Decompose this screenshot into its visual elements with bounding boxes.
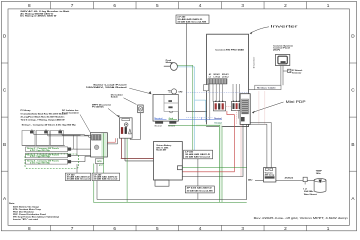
svg-text:2: 2 xyxy=(284,226,287,231)
svg-text:30 AB 645 Ground-MS: 30 AB 645 Ground-MS xyxy=(177,20,207,23)
svg-text:String 1 - Company 34 Values 4: String 1 - Company 34 Values 4 DC Vpp 80… xyxy=(22,123,77,126)
svg-text:Model 48V: Model 48V xyxy=(156,149,167,152)
svg-text:Note:: Note: xyxy=(9,202,15,205)
svg-text:8: 8 xyxy=(28,226,31,231)
svg-text:Solar Load Panel: Solar Load Panel xyxy=(93,84,127,86)
svg-text:3: 3 xyxy=(241,226,244,231)
svg-text:8: 8 xyxy=(28,3,31,8)
svg-text:120/240V, 100A Rated: 120/240V, 100A Rated xyxy=(86,86,128,89)
svg-text:7: 7 xyxy=(71,226,74,231)
svg-text:Mini PDP: Mini PDP xyxy=(286,100,307,104)
svg-text:Conext XW PRO 6848: Conext XW PRO 6848 xyxy=(215,49,245,52)
svg-text:6: 6 xyxy=(113,226,116,231)
svg-text:1: 1 xyxy=(327,3,330,8)
svg-text:Inverter: Inverter xyxy=(253,56,256,68)
svg-text:Ground: Ground xyxy=(214,123,221,125)
svg-text:Neutral: Neutral xyxy=(214,117,222,120)
svg-text:(SCP): (SCP) xyxy=(273,49,281,51)
svg-text:Rev J/2025 June- off grid, Vic: Rev J/2025 June- off grid, Victron MPPT,… xyxy=(254,217,349,220)
svg-text:Inverter "BTL" not rated: Inverter "BTL" not rated xyxy=(13,218,38,221)
svg-text:Switch: Switch xyxy=(111,96,118,99)
svg-text:Netbus Cable: Netbus Cable xyxy=(257,87,276,90)
svg-text:4 LongiPanel Back Row 36 230V: 4 LongiPanel Back Row 36 230V Modules xyxy=(21,115,65,118)
svg-text:B: B xyxy=(351,142,354,147)
svg-text:Inverter: Inverter xyxy=(271,25,300,29)
svg-text:6: 6 xyxy=(113,3,116,8)
svg-text:1: 1 xyxy=(327,226,330,231)
svg-text:gnd: gnd xyxy=(99,164,103,166)
svg-text:7: 7 xyxy=(71,3,74,8)
svg-text:Tied 5 strings, Y Rating, Outp: Tied 5 strings, Y Rating, Output 4800 W xyxy=(21,119,65,122)
svg-text:48v: 48v xyxy=(248,178,253,181)
svg-text:9 CanadianSolar Back Row WC 20: 9 CanadianSolar Back Row WC 200V Modules xyxy=(21,113,68,115)
svg-text:2: 2 xyxy=(284,3,287,8)
svg-text:B: B xyxy=(3,142,6,147)
svg-text:3: 3 xyxy=(241,3,244,8)
svg-text:140v: 140v xyxy=(316,172,321,175)
svg-text:PV 600VDC: PV 600VDC xyxy=(92,107,105,109)
svg-text:PV Array: PV Array xyxy=(21,109,32,112)
svg-text:L1 N L2: L1 N L2 xyxy=(214,77,221,79)
svg-text:L1 N L2: L1 N L2 xyxy=(222,77,229,79)
svg-text:4: 4 xyxy=(199,226,202,231)
svg-text:5: 5 xyxy=(156,3,159,8)
svg-text:L1: L1 xyxy=(209,77,211,79)
svg-text:5: 5 xyxy=(156,226,159,231)
svg-text:DC Rating @ 48VDC 6800 W: DC Rating @ 48VDC 6800 W xyxy=(20,15,56,18)
svg-text:4: 4 xyxy=(199,3,202,8)
